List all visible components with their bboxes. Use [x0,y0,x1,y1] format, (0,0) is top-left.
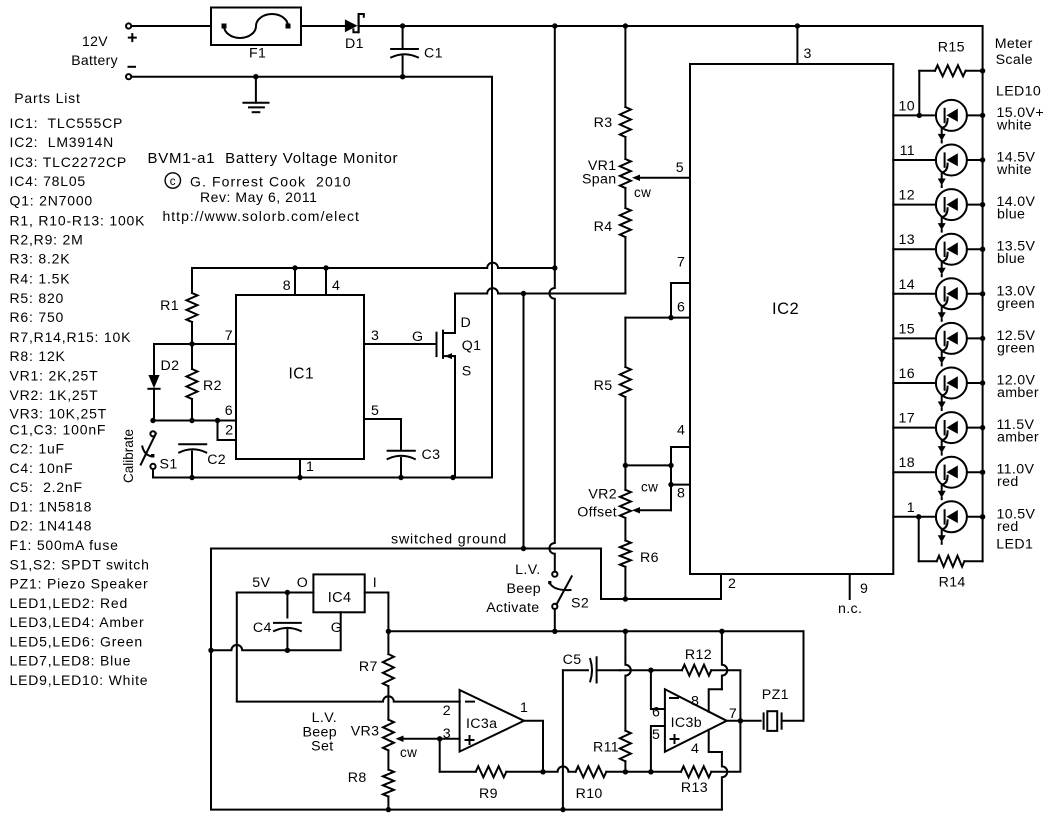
capacitor C5 [563,652,620,810]
pin 4 IC3b wire [709,730,728,810]
svg-text:R2: R2 [203,378,222,394]
svg-text:R4: 1.5K: R4: 1.5K [10,270,71,286]
svg-text:R10: R10 [576,786,603,802]
svg-text:13: 13 [899,232,915,248]
IC2 LM3914N LED driver [690,64,893,574]
svg-text:IC4: 78L05: IC4: 78L05 [10,173,87,189]
svg-text:C4: 10nF: C4: 10nF [10,460,74,476]
svg-text:IC1: TLC555CP: IC1: TLC555CP [10,115,124,131]
pin 5 IC1 wire [364,403,401,450]
wire R9-R10 line with hop over C5 leg [543,766,576,771]
resistor R11 [593,731,631,775]
svg-text:R4: R4 [594,219,613,235]
pins 7-6 IC2 bracket [625,255,690,321]
svg-text:IC3a: IC3a [466,716,497,732]
svg-text:LED7,LED8: Blue: LED7,LED8: Blue [10,652,132,668]
svg-text:1: 1 [520,700,528,716]
svg-text:LED1: LED1 [996,537,1033,553]
svg-text:blue: blue [997,207,1025,223]
pin 3 IC1 wire to Q1 gate [364,328,437,345]
svg-text:n.c.: n.c. [838,601,862,617]
pin 2 IC2 [721,574,736,599]
svg-text:C3: C3 [422,447,441,463]
svg-text:LED9,LED10: White: LED9,LED10: White [10,672,149,688]
svg-text:4: 4 [691,741,699,757]
svg-text:S2: S2 [571,596,589,612]
diode D2 (1N4148) [148,344,179,421]
LED10 row (pin 10) [893,98,1044,142]
resistor R12 [651,647,741,721]
pin 7 IC1 label [225,328,233,344]
wire switched-ground vertical x=523.5 [523,294,525,549]
svg-text:cw: cw [634,185,651,200]
svg-text:http://www.solorb.com/elect: http://www.solorb.com/elect [163,208,360,224]
svg-text:C1: C1 [424,46,443,62]
svg-text:IC4: IC4 [328,590,352,606]
pin 2 IC1 label [225,423,233,439]
svg-text:Meter: Meter [995,36,1033,52]
svg-text:8: 8 [677,486,685,502]
potentiometer VR3 L.V. Beep Set [302,710,442,760]
svg-text:green: green [997,296,1035,312]
LED1 row (pin 1) [893,500,1035,544]
svg-text:12: 12 [899,188,915,204]
svg-text:G: G [412,329,423,345]
IC4 78L05 regulator [252,574,377,636]
op-amp IC3b [652,689,737,757]
LED7 row (pin 13) [893,232,1035,276]
capacitor C3 [388,447,441,478]
wire IC4 ground [208,612,340,653]
capacitor C2 [179,444,226,477]
svg-text:C5: C5 [563,652,582,668]
svg-text:PZ1: Piezo Speaker: PZ1: Piezo Speaker [10,576,149,592]
wire IC1 V+ (y=268 from R1 top to +12V rail) [192,263,558,271]
svg-text:VR2: 1K,25T: VR2: 1K,25T [10,387,99,403]
svg-text:blue: blue [997,251,1025,267]
wire fuse to D1 [301,25,345,27]
svg-text:I: I [373,575,377,591]
svg-text:7: 7 [677,255,685,271]
svg-text:IC2: IC2 [772,300,799,318]
parts list text [10,90,150,688]
svg-text:17: 17 [899,411,915,427]
svg-text:R8: R8 [348,770,367,786]
svg-text:9: 9 [860,581,868,597]
svg-text:5: 5 [676,160,684,176]
svg-text:LED3,LED4: Amber: LED3,LED4: Amber [10,614,145,630]
svg-text:R5: 820: R5: 820 [10,290,65,306]
svg-text:LED10: LED10 [996,83,1041,99]
svg-text:cw: cw [641,480,658,495]
svg-text:2: 2 [443,703,451,719]
svg-text:C2: 1uF: C2: 1uF [10,441,65,457]
wire beep section ground frame [211,549,722,813]
wire Q1 drain to R4 bottom (switched ground source) [455,288,625,296]
svg-text:6: 6 [677,300,685,316]
pin 3 IC2 [797,26,811,64]
capacitor C4 [253,593,301,651]
svg-text:R8: 12K: R8: 12K [10,348,66,364]
svg-text:8: 8 [283,278,291,294]
svg-text:D1: 1N5818: D1: 1N5818 [10,499,93,515]
svg-text:IC2: LM3914N: IC2: LM3914N [10,134,115,150]
svg-text:16: 16 [899,366,915,382]
svg-text:R9: R9 [479,786,498,802]
svg-text:Set: Set [311,738,333,754]
resistor R13 [651,721,741,796]
svg-text:R7,R14,R15: 10K: R7,R14,R15: 10K [10,329,132,345]
svg-text:5: 5 [652,727,660,743]
wire battery+ to fuse [131,25,211,27]
svg-text:S1: S1 [160,457,178,473]
resistor R3 [594,26,631,137]
svg-text:6: 6 [225,403,233,419]
svg-text:C4: C4 [253,620,272,636]
svg-text:Offset: Offset [577,505,617,521]
svg-text:L.V.: L.V. [515,562,540,578]
node pin7 junction [189,341,194,346]
LED5 row (pin 15) [893,321,1035,365]
svg-text:IC1: IC1 [289,366,315,383]
svg-text:F1: F1 [249,46,266,62]
svg-text:R6: R6 [640,550,659,566]
battery 12V terminals [71,23,136,79]
wire IC1 pin6/pin2 net [150,418,236,440]
title block [148,150,399,224]
svg-text:R5: R5 [594,378,613,394]
svg-text:12V: 12V [82,33,108,49]
label LED10 [996,83,1041,99]
LED3 row (pin 17) [893,411,1039,455]
pin 8 IC3b wire [709,631,728,712]
svg-text:D2: 1N4148: D2: 1N4148 [10,518,93,534]
LED2 row (pin 18) [893,455,1034,499]
svg-text:LED5,LED6: Green: LED5,LED6: Green [10,633,143,649]
svg-text:1: 1 [306,459,314,475]
wire beep +12V (y=631 from IC4 input to PZ1) [386,629,804,634]
svg-text:2: 2 [728,576,736,592]
wire switched ground net [211,532,721,602]
op-amp IC3a [443,690,529,752]
LED8 row (pin 12) [893,188,1035,232]
pin 4 IC1 [326,268,340,295]
svg-text:white: white [996,117,1032,133]
IC1 TLC555CP timer [236,295,364,459]
LED4 row (pin 16) [893,366,1039,410]
piezo speaker PZ1 [762,631,804,731]
pins 4-8 IC2 bracket [623,423,690,511]
pin 8 IC1 [283,268,295,295]
svg-text:D1: D1 [345,36,364,52]
svg-text:4: 4 [332,278,340,294]
svg-text:BVM1-a1 Battery Voltage Monit: BVM1-a1 Battery Voltage Monitor [148,150,399,167]
svg-text:8: 8 [691,694,699,710]
svg-text:Battery: Battery [71,52,118,68]
svg-text:LED1,LED2: Red: LED1,LED2: Red [10,595,129,611]
resistor R5 [594,318,631,466]
switch S1 Calibrate [121,429,178,483]
wire IC3b pin5 net [625,726,665,775]
label Meter Scale [995,36,1033,68]
svg-text:Rev: May 6, 2011: Rev: May 6, 2011 [200,189,317,205]
wire x=625 beep branch with hop [625,631,630,730]
resistor R15 [917,40,986,119]
svg-text:D2: D2 [161,358,180,374]
fuse F1 [211,8,301,62]
svg-text:R14: R14 [939,575,966,591]
svg-text:cw: cw [400,745,417,760]
pin 9 IC2 n.c. [838,574,868,617]
svg-text:PZ1: PZ1 [762,687,789,703]
svg-text:R11: R11 [593,740,619,756]
potentiometer VR1 Span [582,137,690,200]
resistor R8 [348,750,394,809]
svg-text:R13: R13 [681,780,708,796]
label LED1 [996,537,1033,553]
svg-text:Span: Span [582,172,617,188]
pin 6 IC1 label [225,403,233,419]
svg-text:c: c [170,176,176,188]
svg-text:2: 2 [225,423,233,439]
wire IC1 ground rail (y=477.5) [153,475,492,480]
capacitor C1 [391,26,443,77]
svg-text:R2,R9: 2M: R2,R9: 2M [10,232,84,248]
svg-text:red: red [997,519,1019,535]
svg-text:3: 3 [371,328,379,344]
svg-text:Q1: 2N7000: Q1: 2N7000 [10,193,94,209]
svg-text:red: red [997,474,1019,490]
pin 5 IC2 label [676,160,684,176]
diode D1 (1N5818 schottky) [345,14,364,52]
svg-text:15: 15 [899,321,915,337]
wire C5-R12 node to IC3b pin6 [620,668,665,710]
svg-text:F1: 500mA fuse: F1: 500mA fuse [10,537,119,553]
resistor R2 [187,344,222,421]
svg-text:10: 10 [899,98,915,114]
wire +12V top rail (D1 to meter column) [359,23,983,71]
wire battery- bottom rail [131,74,492,478]
wire IC4 output 5V net [237,590,460,702]
svg-text:VR1: 2K,25T: VR1: 2K,25T [10,368,99,384]
svg-text:VR3: 10K,25T: VR3: 10K,25T [10,405,108,421]
potentiometer VR2 Offset [577,465,671,520]
svg-text:R7: R7 [359,659,378,675]
wire LED anode rail x=982.6 [982,71,984,561]
svg-text:Calibrate: Calibrate [121,429,136,483]
svg-text:green: green [997,340,1035,356]
svg-text:R1, R10-R13: 100K: R1, R10-R13: 100K [10,212,146,228]
svg-text:C2: C2 [207,452,226,468]
svg-text:R15: R15 [938,40,965,56]
svg-text:Beep: Beep [506,581,541,597]
svg-text:D: D [461,315,472,331]
svg-text:18: 18 [899,455,915,471]
wire IC3a pin3 net [440,739,460,772]
svg-text:C5: 2.2nF: C5: 2.2nF [10,479,83,495]
resistor R14 [916,514,983,591]
svg-text:R3: 8.2K: R3: 8.2K [10,251,71,267]
svg-text:5V: 5V [252,575,270,591]
wire IC3b output node [727,718,761,723]
wire +12V vertical rail x=555 [549,26,554,572]
resistor R10 [576,766,626,802]
LED6 row (pin 14) [893,277,1035,321]
resistor R9 [440,766,543,802]
svg-text:O: O [297,575,308,591]
svg-text:R12: R12 [685,647,712,663]
svg-text:IC3: TLC2272CP: IC3: TLC2272CP [10,154,128,170]
svg-text:VR2: VR2 [588,487,617,503]
pin 1 IC1 [300,459,314,478]
svg-text:14: 14 [899,277,915,293]
wire IC3a output [524,721,546,775]
svg-text:11: 11 [900,143,915,159]
svg-text:G. Forrest Cook 2010: G. Forrest Cook 2010 [190,174,352,190]
svg-text:Activate: Activate [486,600,539,616]
switch S2 L.V. Beep Activate [486,562,589,631]
wire IC4 input [365,593,389,632]
svg-text:amber: amber [997,430,1039,446]
svg-text:R3: R3 [594,115,613,131]
resistor R7 [359,631,394,719]
svg-text:white: white [996,162,1032,178]
svg-text:3: 3 [804,46,812,62]
svg-text:amber: amber [997,385,1039,401]
svg-text:5: 5 [371,403,379,419]
svg-text:1: 1 [907,500,915,516]
svg-text:R6: 750: R6: 750 [10,309,65,325]
LED9 row (pin 11) [893,143,1035,187]
wire IC1 pin7 net [154,343,236,345]
svg-text:switched ground: switched ground [391,532,507,548]
svg-text:C1,C3: 100nF: C1,C3: 100nF [10,422,107,438]
resistor R4 [594,188,631,294]
svg-text:7: 7 [225,328,233,344]
resistor R6 [620,518,659,599]
svg-text:R1: R1 [160,298,179,314]
svg-text:S1,S2: SPDT switch: S1,S2: SPDT switch [10,557,150,573]
svg-text:6: 6 [652,705,660,721]
svg-text:Parts List: Parts List [14,90,80,106]
svg-text:7: 7 [729,706,737,722]
svg-text:4: 4 [677,423,685,439]
svg-text:IC3b: IC3b [671,715,702,731]
svg-text:S: S [462,364,472,380]
transistor Q1 (2N7000) [437,294,482,478]
svg-text:VR3: VR3 [351,724,380,740]
svg-text:Scale: Scale [996,52,1033,68]
ground [243,77,268,113]
resistor R1 [160,268,197,344]
svg-text:Q1: Q1 [462,338,482,354]
